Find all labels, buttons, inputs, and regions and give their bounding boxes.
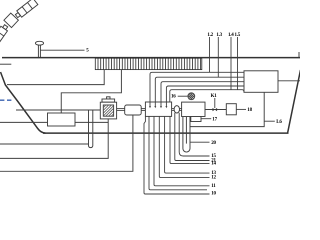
svg-text:10: 10 — [211, 192, 216, 197]
svg-text:17: 17 — [212, 117, 217, 122]
svg-text:1.3: 1.3 — [216, 33, 222, 38]
svg-text:20: 20 — [211, 141, 216, 146]
svg-text:1.2: 1.2 — [207, 33, 213, 38]
svg-text:18: 18 — [247, 108, 252, 113]
svg-text:12: 12 — [211, 176, 216, 181]
svg-text:1.5: 1.5 — [235, 33, 241, 38]
svg-text:1.4: 1.4 — [228, 33, 234, 38]
svg-text:L6: L6 — [276, 120, 282, 125]
svg-text:14: 14 — [211, 162, 216, 167]
svg-text:5: 5 — [86, 49, 89, 54]
svg-text:11: 11 — [211, 184, 216, 189]
svg-text:K1: K1 — [211, 94, 218, 99]
svg-text:16: 16 — [171, 94, 176, 99]
